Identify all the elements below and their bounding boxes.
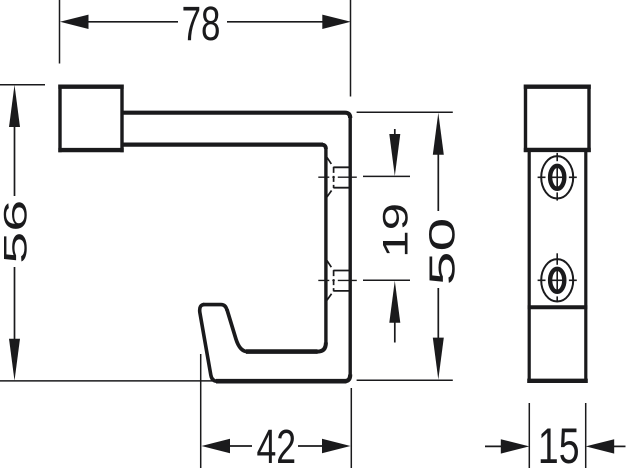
side view: wall block (58, 85, 123, 153)
svg-text:50: 50 (422, 218, 463, 286)
dimension 50: bottom reference line (357, 379, 453, 381)
front view: hook arm front edge line (528, 305, 588, 309)
side screw hole 2: neck vertical (hidden line) (333, 270, 335, 291)
dimension 42: line left segment (229, 445, 252, 447)
side screw hole 1: centre line (318, 176, 357, 178)
side view: hook lip top edge (203, 305, 227, 311)
svg-text:42: 42 (256, 420, 296, 468)
dimension 15: right extension line (585, 403, 587, 468)
side view: hook outline right outer edge (349, 116, 352, 377)
side screw hole 1: countersink upper slant (hidden line) (327, 157, 334, 167)
dimension 19: screw1 axis extension line (363, 175, 410, 177)
dimension 50: up arrow (433, 113, 444, 155)
dimension 42: left extension line (200, 354, 202, 468)
dimension 78: right extension line (350, 0, 352, 97)
front screw 1: outer ellipse (541, 156, 573, 198)
side view: hook outline bottom outer edge (216, 379, 347, 384)
dimension 78: line left segment (86, 21, 178, 23)
front view: plate bottom edge (527, 379, 588, 383)
front view: plate left edge (528, 151, 531, 382)
side screw hole 2: centre line (318, 279, 357, 281)
front view: plate right edge (584, 151, 587, 382)
dimension 42: left arrow (202, 439, 231, 453)
dimension 56: line upper segment (14, 125, 16, 196)
dimension 15: left arrow (points right) (501, 439, 530, 453)
front screw 1: inner ellipse (550, 166, 564, 189)
side screw hole 2: bore top line (333, 270, 349, 272)
svg-text:15: 15 (538, 419, 580, 468)
svg-text:56: 56 (0, 200, 33, 264)
side screw hole 1: bore top line (333, 166, 349, 168)
front screw 2: outer ellipse (541, 259, 573, 301)
front screw 2: centre mark vertical (556, 253, 558, 301)
front screw 1: centre mark horizontal (538, 176, 577, 178)
side view: hook outline bottom right outer corner (345, 375, 351, 382)
dimension 50: line lower segment (437, 288, 439, 340)
side screw hole 1: neck vertical (hidden line) (333, 167, 335, 188)
dimension 19: upper arrow (points down) (389, 134, 400, 176)
side view: hook outline top outer edge (124, 113, 351, 118)
front screw 2: centre mark horizontal (538, 279, 577, 281)
dimension 42: line right segment (298, 445, 323, 447)
dimension 15: right arrow (points left) (586, 439, 615, 453)
dimension 78: right arrow (322, 15, 351, 29)
side screw hole 1: bore bottom line (333, 187, 349, 189)
side screw hole 2: countersink upper slant (hidden line) (327, 261, 334, 271)
dimension 78: line right segment (227, 21, 324, 23)
side screw hole 2: countersink lower slant (hidden line) (327, 291, 334, 300)
dimension 42: right extension line (350, 388, 352, 468)
svg-text:78: 78 (182, 0, 221, 50)
side screw hole 2: bore bottom line (333, 290, 349, 292)
svg-text:19: 19 (376, 203, 416, 258)
side view: hook inner right edge (324, 148, 327, 345)
dimension 56: up arrow (9, 85, 20, 127)
dimension 19: screw2 axis extension line (363, 279, 410, 281)
front view: head block (524, 85, 591, 153)
side view: hook inner top edge (124, 143, 324, 147)
front screw 2: inner ellipse (550, 269, 564, 292)
side view: hook inner bottom right corner (317, 343, 326, 352)
dimension 56: top extension line (0, 84, 45, 86)
dimension 50: top reference line (357, 111, 453, 113)
side view: hook lip outer edge (200, 305, 217, 382)
side screw hole 1: countersink lower slant (hidden line) (327, 188, 334, 197)
dimension 50: down arrow (433, 338, 444, 380)
dimension 50: line upper segment (437, 153, 439, 211)
side view: hook lip inner edge (227, 309, 248, 351)
dimension 15: left extension line (528, 403, 530, 468)
side view: hook inner bottom edge (246, 349, 318, 354)
side view: hook inner top corner (322, 145, 326, 149)
dimension 78: left extension line (59, 0, 61, 64)
front screw 1: centre mark vertical (556, 153, 558, 201)
dimension 78: left arrow (60, 15, 89, 29)
dimension 56: line lower segment (14, 267, 16, 340)
dimension 42: right arrow (322, 439, 351, 453)
dimension 56: down arrow (9, 339, 20, 381)
dimension 19: lower arrow (points up) (389, 281, 400, 323)
bottom reference line (hook underside, shared by 56) (0, 380, 214, 382)
